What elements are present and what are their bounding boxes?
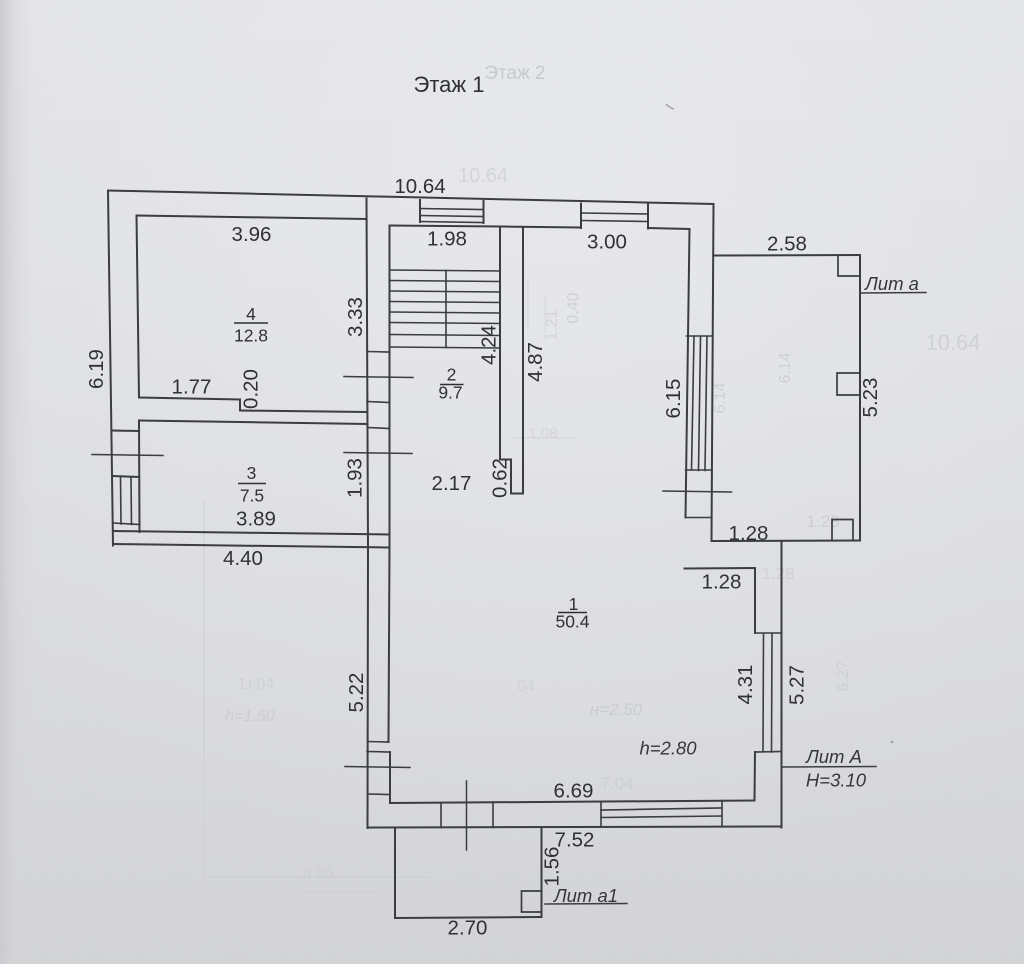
stairs tread 2 [391,281,501,282]
wire band cross y402 [367,402,390,403]
window W4 pane a [692,337,695,471]
window W2 jamb right [647,205,649,229]
wall main east outer [712,204,714,541]
svg-text:10.64: 10.64 [458,165,508,187]
svg-text:1.08: 1.08 [528,425,557,442]
svg-text:2: 2 [447,365,457,385]
svg-text:1.98: 1.98 [427,228,467,251]
wall room3 left inner [138,421,141,533]
wall room4 bottom step 0.20 [239,400,241,411]
svg-text:9.7: 9.7 [438,383,462,403]
svg-text:5.22: 5.22 [345,673,368,713]
window W1 sill [420,222,484,223]
svg-text:2.17: 2.17 [432,472,472,495]
window W3 left cap top [113,476,139,477]
wall hall band east line [389,226,390,743]
window W3 pane line b [130,477,133,525]
wall room4 bottom left 1.77 [139,398,240,400]
wire stray dot [891,741,893,743]
wire cross bottom wall x493 [492,802,494,828]
svg-text:04: 04 [517,678,535,695]
svg-text:н=2.50: н=2.50 [590,700,643,719]
wall room4 bottom right [240,411,367,413]
svg-text:0.20: 0.20 [240,369,263,409]
wire ghost horizontal y877 [204,876,430,878]
wall top inner right part [648,228,690,229]
wall porch LitA east [859,255,861,541]
svg-text:7.5: 7.5 [240,486,264,506]
svg-text:12.8: 12.8 [234,326,268,346]
svg-text:д 9б: д 9б [302,865,334,882]
wire small stray mark [666,104,674,109]
svg-text:5.27: 5.27 [786,665,809,705]
svg-text:Лит а1: Лит а1 [553,885,618,906]
wall room2 stub right 0.62 [500,460,523,494]
wall room3 left connector [113,430,139,433]
wall room3 bottom inner [114,531,390,535]
pier porch bottom box [832,520,853,541]
wire top outer boundary line [108,191,714,205]
svg-text:0.62: 0.62 [489,458,512,498]
window W4 cap bottom [686,469,712,471]
svg-text:4: 4 [246,304,256,324]
wire room4 fraction bar [234,322,268,324]
window W5 pane a [762,634,765,752]
wall porch LitA1 bottom [395,917,542,918]
svg-text:6.14: 6.14 [777,352,794,383]
window W3 pane line a [120,477,123,525]
wall room4 left [137,216,140,398]
wall step 1.28 upper y541 [712,540,861,543]
svg-text:5.23: 5.23 [859,378,882,418]
wall hall band west line [367,199,369,829]
stairs tread 6 [391,323,501,324]
wall room2 east [499,227,501,460]
wire band cross y428 [368,428,390,429]
wire band tick y377 [344,377,413,378]
svg-text:4.31: 4.31 [734,665,757,705]
wall top inner over hall [500,227,581,228]
svg-text:4.24: 4.24 [478,325,501,365]
svg-text:50.4: 50.4 [555,612,589,632]
wall porch LitA top [714,254,861,257]
svg-text:1т.04: 1т.04 [238,676,275,693]
wire room2 fraction bar [440,384,464,386]
wall room1 bottom inner [390,801,755,804]
svg-text:6.27: 6.27 [835,660,852,691]
wire ghost vertical x528 [527,282,529,330]
stairs tread 3 [391,291,501,292]
stairs tread 5 [391,312,501,313]
window W1 pane a [420,209,484,210]
wire band jog y752 [367,751,390,754]
pier porch mid-right box [837,373,860,395]
door mark x466 [466,781,468,850]
window W6 jamb left [600,802,602,827]
window W6 jamb right [721,801,723,827]
svg-text:Лит А: Лит А [805,746,862,767]
wall hall east 4.87 [522,227,524,494]
svg-text:1.21: 1.21 [544,309,561,340]
svg-text:3.89: 3.89 [236,508,276,531]
wire callout underline Lit a1 [545,903,627,906]
svg-text:0.40: 0.40 [565,292,582,323]
svg-text:4.40: 4.40 [223,547,263,570]
TEXT-LAYER [85,72,919,940]
wire band cross y352 [367,351,390,354]
wire tick y767 room1 west [345,767,410,768]
svg-text:h=1.50: h=1.50 [225,708,274,725]
window W5 pane b [771,634,774,753]
wire ghost line y438 [512,437,575,439]
stairs tread 7 [391,335,501,336]
window W5 cap bottom [755,751,782,754]
wire cross east wall y517 [686,517,712,519]
window W2 jamb left [580,204,582,229]
wire callout underline Lit a [860,292,926,295]
wire tick east wall y491 [663,491,732,492]
wire tick left 6.19 end [92,455,163,456]
pier porch LitA1 box [522,891,542,912]
wall main east inner [686,229,690,518]
wire ghost vertical x204 [203,500,205,877]
wall room4 top [137,216,367,220]
window W2 pane b [581,221,648,222]
GHOST-LAYER (bleed-through from reverse page) [204,63,981,910]
svg-text:h=2.80: h=2.80 [639,738,697,759]
stairs middle stringer [445,271,447,348]
wall porch LitA1 west [394,828,396,918]
window W1 pane b [420,216,484,217]
window W4 pane c [705,337,707,471]
window W6 pane b [601,816,722,818]
window W1 jamb left [419,200,421,222]
wire room3 fraction bar [238,483,266,485]
window W3 left cap bottom [114,523,140,525]
svg-text:1.28: 1.28 [702,571,742,594]
wall room1 west lower [389,752,391,803]
wall room3 bottom outer [113,544,390,548]
svg-text:3.33: 3.33 [344,297,367,337]
wall step 1.28 lower y568 [685,567,756,570]
svg-text:4.87: 4.87 [524,342,547,382]
svg-text:Этаж 2: Этаж 2 [484,63,545,84]
window W5 cap top [755,632,782,634]
wall room3 top divider [139,421,368,425]
stairs tread 1 [391,270,501,271]
svg-text:Лит а: Лит а [864,273,919,294]
stairs tread 8 bottom [391,347,501,348]
svg-text:10.64: 10.64 [394,175,445,198]
svg-text:6.19: 6.19 [85,349,108,389]
svg-text:1.56: 1.56 [541,847,564,887]
wire ghost vertical x545 [544,296,546,340]
wire ghost box bottom a [300,891,378,893]
window W1 jamb right [483,201,485,223]
window W6 pane a [601,808,722,810]
svg-text:3.00: 3.00 [587,231,627,254]
svg-text:6.15: 6.15 [662,379,685,419]
window W2 pane a [581,213,648,214]
wall room1 east upper [754,568,756,633]
svg-text:1.77: 1.77 [172,376,212,399]
wire band cap y794 [368,793,391,796]
wall room1 east lower [754,752,757,801]
svg-text:10.64: 10.64 [925,330,980,355]
wall porch LitA1 east [541,828,543,917]
wire room1 fraction bar [558,612,587,614]
wall room1 bottom outer [368,827,782,828]
wire band tick y453 [344,453,412,454]
svg-text:6.69: 6.69 [554,780,594,803]
wall room1 east outer [781,541,783,828]
svg-text:3.96: 3.96 [232,223,272,246]
wire left outer boundary line [108,191,113,546]
svg-text:1.28: 1.28 [806,512,839,531]
svg-text:1.28: 1.28 [729,522,769,545]
window W4 pane b [699,337,701,471]
svg-text:6.14: 6.14 [712,382,729,413]
wire callout underline Lit A [782,766,877,769]
svg-text:H=3.10: H=3.10 [806,770,867,791]
wire ghost box bottom b [300,909,378,911]
svg-text:7.04: 7.04 [600,774,633,793]
window W4 cap top [687,335,713,337]
wire band cap y742 [368,741,389,744]
svg-text:Этаж 1: Этаж 1 [414,72,485,97]
WALL-LAYER [92,191,926,919]
svg-text:1.28: 1.28 [761,564,794,583]
svg-text:1.93: 1.93 [344,458,367,498]
svg-text:2.70: 2.70 [448,917,488,940]
pier porch top-right box [838,256,860,277]
svg-text:3: 3 [247,463,257,483]
stairs tread 4 [391,302,501,303]
wire cross bottom wall x441 [440,803,442,828]
wall top inner over room2 [390,226,501,227]
svg-text:2.58: 2.58 [767,233,807,256]
